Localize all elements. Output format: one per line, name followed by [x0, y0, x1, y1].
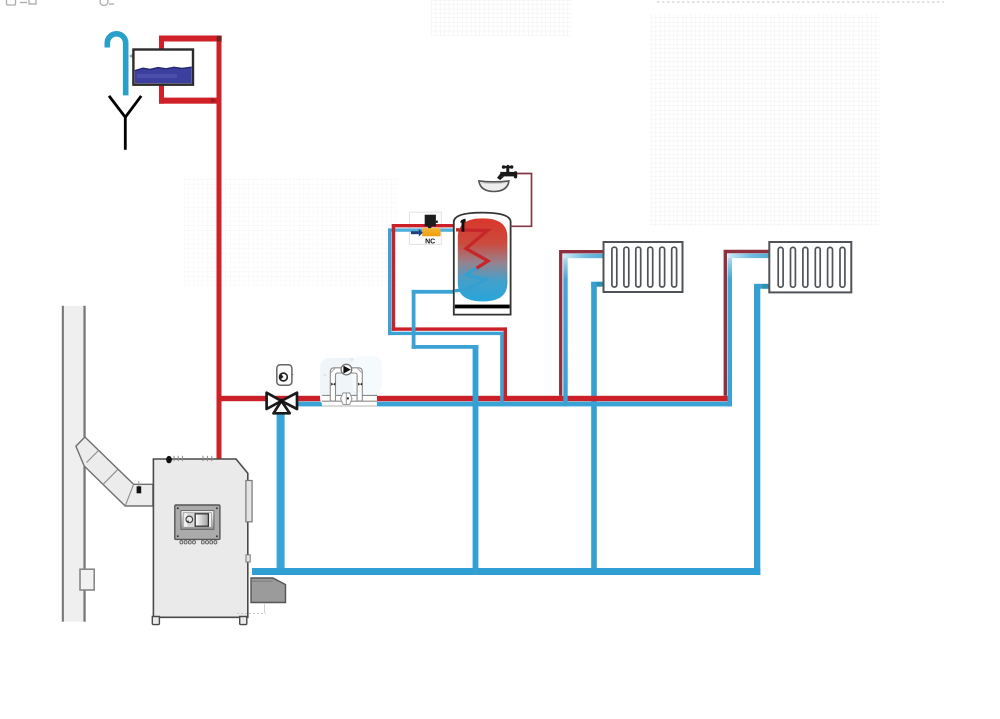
svg-text:NC: NC — [425, 239, 435, 246]
svg-text:xx: xx — [350, 358, 354, 362]
svg-text:xx: xx — [323, 373, 327, 377]
